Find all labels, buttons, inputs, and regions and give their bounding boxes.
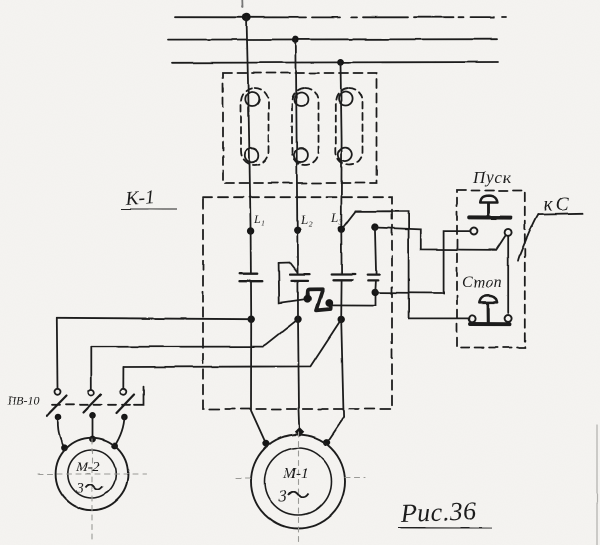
junction dot on line 2 (292, 36, 299, 43)
wire coil right to aux bottom (331, 292, 376, 305)
switch pole 3 contact (120, 389, 126, 395)
label K-1 (124, 187, 156, 210)
fuse box (dashed) (223, 73, 377, 183)
motor M1 inner circle (265, 448, 332, 515)
contactor aux contact (367, 275, 379, 281)
fuse F2 bottom clip (294, 148, 308, 162)
power line 1 (top bus, dash-dot right part) (175, 16, 506, 18)
coil K (thick zigzag) (307, 289, 330, 310)
push button station box (dashed) (457, 191, 525, 348)
label Рис.36 (399, 496, 477, 528)
wire switch pole1 to motor M2 (58, 417, 65, 448)
svg-text:L₂: L₂ (300, 212, 313, 227)
wire switch pole3 to motor M2 (115, 417, 125, 446)
svg-text:кС: кС (544, 195, 572, 216)
svg-text:L₃: L₃ (330, 210, 343, 225)
motor M2 terminal dot left (61, 444, 68, 451)
wire from line3 through fuse F3 to L3 (341, 62, 342, 229)
node L2 dot (294, 226, 301, 233)
wire contact3 to bottom dot (340, 280, 342, 319)
wire contact2 to bottom dot (297, 281, 299, 319)
wire phase1 to switch pole 1 (57, 318, 251, 319)
wire phase3 down to motor M1 (327, 319, 344, 442)
stop button bar (thick) (470, 322, 510, 326)
kC label leader line (538, 213, 583, 216)
switch pole 2 contact (88, 390, 94, 396)
switch bottom contact dot 3 (121, 414, 128, 421)
motor M2 inner circle (68, 450, 116, 498)
coil terminal dot right (325, 299, 333, 307)
wire from line2 through fuse F2 to L2 (296, 40, 298, 230)
fuse F2 body (292, 88, 319, 165)
switch PV-10 pole 3 riser (122, 367, 124, 389)
switch pole 1 contact (55, 389, 61, 395)
start contact right (505, 229, 512, 236)
fuse F1 top clip (245, 92, 259, 106)
wire phase2 down to motor M1 (298, 319, 300, 432)
switch link bar (dashed) with handle (52, 404, 134, 406)
fuse F2 top clip (294, 93, 308, 107)
actuating flag over contact 2 (279, 263, 298, 273)
wire start button left to aux bottom (375, 231, 469, 293)
contactor K-1 box (dashed) (203, 197, 392, 409)
switch PV-10 pole 2 riser (90, 347, 92, 390)
wire aux contact to bottom dot (374, 280, 377, 292)
coil terminal dot left (304, 295, 312, 303)
start contact left (470, 228, 477, 235)
junction dot on line 3 (337, 59, 344, 66)
svg-text:3: 3 (278, 487, 287, 506)
motor M2 outer circle (56, 438, 128, 510)
aux contact top dot (371, 223, 378, 230)
node L3 dot (338, 226, 345, 233)
switch blade 2 (84, 395, 102, 413)
stop contact right (505, 315, 512, 322)
fuse F3 bottom clip (338, 148, 352, 162)
power line 3 (172, 61, 498, 64)
wire aux dot to aux contact (375, 227, 376, 274)
start button bar (thick) (469, 215, 510, 219)
motor M1 center crosshair (236, 432, 365, 545)
bottom node dot phase 2 (294, 316, 301, 323)
contactor main contact 1 (239, 274, 262, 282)
switch bottom contact dot 2 (89, 412, 96, 419)
wire contact1 to bottom dot (250, 281, 252, 319)
wire phase2 to switch pole 2 (91, 319, 298, 347)
power line 2 (168, 38, 497, 40)
bottom node dot phase 1 (248, 316, 255, 323)
wire phase3 to switch pole 3 (123, 319, 341, 367)
svg-text:Пуск: Пуск (472, 168, 512, 187)
fuse F1 bottom clip (245, 148, 259, 162)
wire from line1 through fuse F1 to L1 (247, 17, 251, 231)
wire stop right to start right (507, 236, 509, 313)
contactor main contact 3 (332, 275, 355, 281)
svg-text:L₁: L₁ (253, 212, 265, 226)
motor M2 terminal dot right (111, 443, 118, 450)
svg-text:М-2: М-2 (75, 460, 99, 475)
wire L2 dot to contact (296, 230, 298, 275)
wire aux top to start button right (376, 228, 506, 250)
motor M1 terminal dot left (262, 440, 269, 447)
fuse F3 top clip (339, 92, 353, 106)
fuse F1 body (241, 88, 269, 165)
svg-text:Стоп: Стоп (462, 274, 502, 291)
wire L1 dot to contact (250, 231, 252, 274)
switch bottom contact dot 1 (55, 414, 62, 421)
switch blade 1 (47, 396, 67, 416)
fuse F3 body (336, 88, 363, 165)
tick above line1 (241, 0, 243, 7)
node L1 dot (247, 227, 254, 234)
wire phase1 down to motor M1 (251, 319, 266, 443)
bottom node dot phase 3 (338, 316, 345, 323)
switch PV-10 pole 1 riser (56, 318, 59, 389)
switch blade 3 (117, 395, 135, 414)
faint page edge line bottom right (596, 425, 598, 545)
aux contact bottom dot (372, 289, 379, 296)
motor M1 terminal dot middle (diamond) (295, 427, 305, 437)
contactor main contact 2 (290, 275, 310, 281)
stop button head (479, 296, 497, 303)
svg-text:М-1: М-1 (283, 466, 309, 482)
motor M1 outer circle (251, 435, 345, 529)
motor M2 terminal dot middle (89, 436, 96, 443)
wire coil left to flag (279, 263, 308, 303)
svg-text:Рис.36: Рис.36 (399, 496, 477, 528)
junction dot on line 1 (242, 13, 250, 21)
stop contact left (469, 315, 476, 322)
wire L3 to stop button (step) (343, 211, 469, 318)
motor M2 center crosshair (38, 439, 146, 541)
svg-text:ПВ-10: ПВ-10 (7, 394, 40, 408)
wire switch pole2 to motor M2 (92, 415, 94, 439)
motor M1 terminal dot right (323, 439, 330, 446)
svg-text:3: 3 (76, 481, 84, 497)
start button head (480, 196, 497, 203)
svg-text:К-1: К-1 (124, 187, 156, 210)
wire L3 dot to contact (340, 229, 342, 274)
